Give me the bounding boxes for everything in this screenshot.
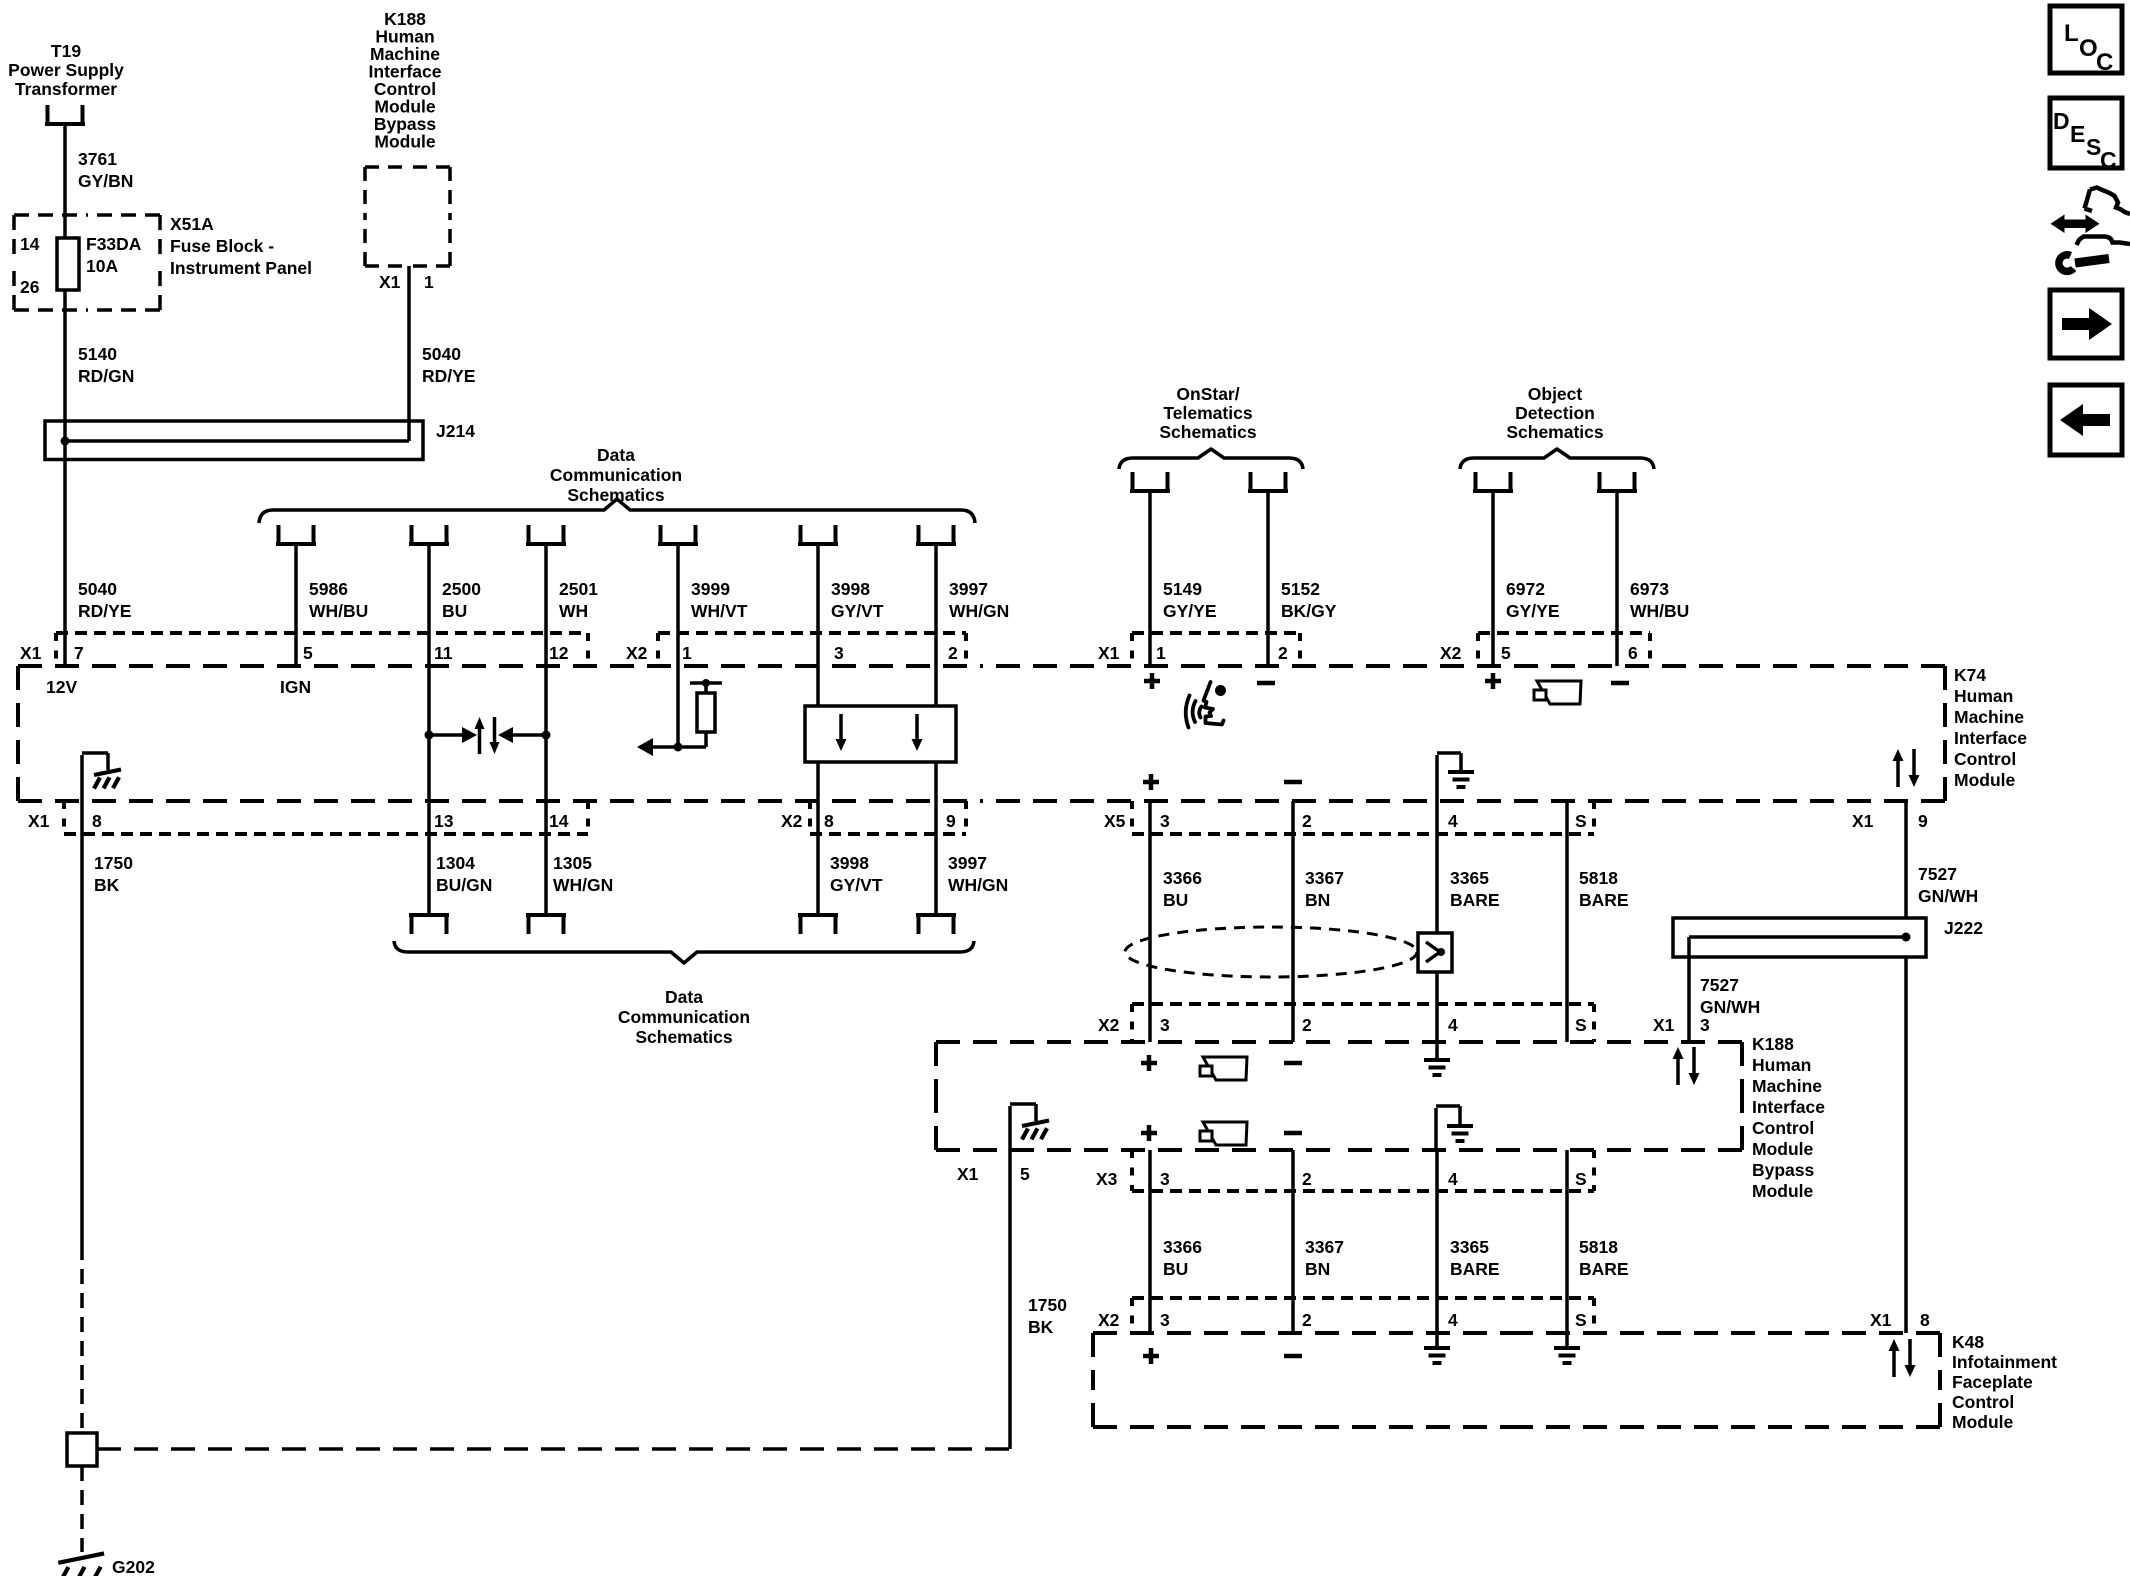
svg-text:WH: WH <box>559 601 588 621</box>
svg-text:X2: X2 <box>1098 1310 1120 1330</box>
svg-text:Schematics: Schematics <box>1159 422 1257 442</box>
svg-text:9: 9 <box>946 811 956 831</box>
car diagnostic icon <box>2085 188 2130 215</box>
svg-text:5: 5 <box>1501 643 1511 663</box>
svg-text:Detection: Detection <box>1515 403 1595 423</box>
svg-text:E: E <box>2070 121 2085 147</box>
svg-text:L: L <box>2064 20 2079 47</box>
wire 3761 GY/BN <box>63 124 67 238</box>
svg-text:G202: G202 <box>112 1557 155 1576</box>
connector row line (dotted) K74 bottom <box>64 832 588 836</box>
fuse F33DA 10A <box>57 238 79 290</box>
svg-text:WH/GN: WH/GN <box>949 601 1009 621</box>
svg-text:BARE: BARE <box>1450 890 1500 910</box>
svg-text:X5: X5 <box>1104 811 1126 831</box>
svg-text:T19: T19 <box>51 41 81 61</box>
fuse block X51A dashed box <box>14 213 87 217</box>
wire 5140 RD/GN <box>63 290 67 421</box>
svg-text:4: 4 <box>1448 1169 1458 1189</box>
chassis ground inside K74 left <box>82 753 108 801</box>
down arrow 1 in gateway box <box>839 714 843 741</box>
svg-text:BN: BN <box>1305 890 1330 910</box>
svg-text:Bypass: Bypass <box>1752 1160 1815 1180</box>
svg-text:GN/WH: GN/WH <box>1700 997 1760 1017</box>
wire 3997 WH/GN <box>934 544 938 666</box>
svg-text:X2: X2 <box>1098 1015 1120 1035</box>
svg-text:K188: K188 <box>1752 1034 1794 1054</box>
svg-text:10A: 10A <box>86 256 118 276</box>
svg-text:3999: 3999 <box>691 579 730 599</box>
svg-text:1: 1 <box>424 272 434 292</box>
K48 + sign <box>1143 1348 1159 1364</box>
svg-text:3998: 3998 <box>830 853 869 873</box>
terminating resistor branch wire 3999 <box>676 666 680 747</box>
wire 7527 GN/WH to K188 <box>1687 937 1691 1042</box>
off-page connector for wire 5152 <box>1248 472 1288 491</box>
svg-text:3: 3 <box>834 643 844 663</box>
svg-text:2: 2 <box>1302 1015 1312 1035</box>
connector ticks X3 of K188 <box>1130 1150 1134 1191</box>
svg-text:8: 8 <box>824 811 834 831</box>
serial data gateway box wires 3998/3997 <box>816 666 820 706</box>
svg-text:Machine: Machine <box>1752 1076 1822 1096</box>
svg-text:WH/GN: WH/GN <box>948 875 1008 895</box>
svg-text:6972: 6972 <box>1506 579 1545 599</box>
K188 row1 camera icon <box>1203 1057 1247 1080</box>
svg-text:BU: BU <box>442 601 467 621</box>
svg-text:3997: 3997 <box>948 853 987 873</box>
svg-text:5040: 5040 <box>422 344 461 364</box>
wire 5152 BK/GY <box>1266 491 1270 666</box>
svg-text:Object: Object <box>1528 384 1583 404</box>
svg-text:BU/GN: BU/GN <box>436 875 492 895</box>
brace over OnStar wires <box>1119 449 1303 469</box>
off-page connector wire 3997 <box>916 915 956 934</box>
svg-text:K74: K74 <box>1954 665 1986 685</box>
svg-text:GY/YE: GY/YE <box>1506 601 1560 621</box>
svg-text:J214: J214 <box>436 421 475 441</box>
svg-text:8: 8 <box>92 811 102 831</box>
svg-text:X3: X3 <box>1096 1169 1118 1189</box>
wire 1304 BU/GN <box>427 801 431 915</box>
svg-text:WH/BU: WH/BU <box>1630 601 1689 621</box>
svg-text:3366: 3366 <box>1163 1237 1202 1257</box>
svg-text:2: 2 <box>1302 1169 1312 1189</box>
wire 5818 BARE lower <box>1565 1150 1569 1333</box>
svg-text:4: 4 <box>1448 1310 1458 1330</box>
svg-text:RD/YE: RD/YE <box>422 366 475 386</box>
ground G202 <box>58 1553 104 1562</box>
svg-text:Infotainment: Infotainment <box>1952 1352 2057 1372</box>
off-page connector for wire 3997 <box>916 525 956 544</box>
off-page connector wire 1305 <box>526 915 566 934</box>
connector ticks K74 top <box>54 633 58 666</box>
svg-text:3: 3 <box>1160 1310 1170 1330</box>
splice pack J214 <box>45 421 423 460</box>
svg-text:5140: 5140 <box>78 344 117 364</box>
svg-text:C: C <box>2100 147 2117 173</box>
connector ticks X2 of K48 <box>1130 1298 1134 1333</box>
svg-text:BU: BU <box>1163 1259 1188 1279</box>
svg-text:BK: BK <box>1028 1317 1054 1337</box>
svg-text:Module: Module <box>374 132 436 152</box>
svg-text:BARE: BARE <box>1579 1259 1629 1279</box>
svg-text:5149: 5149 <box>1163 579 1202 599</box>
svg-text:IGN: IGN <box>280 677 311 697</box>
connector row line (dotted) K74 top <box>56 631 588 635</box>
brace over data communication wires (top) <box>259 499 975 523</box>
svg-text:GN/WH: GN/WH <box>1918 886 1978 906</box>
svg-text:Module: Module <box>1752 1181 1814 1201</box>
svg-text:S: S <box>1575 1169 1587 1189</box>
svg-text:1: 1 <box>1156 643 1166 663</box>
splice pack J222 <box>1673 918 1926 957</box>
svg-text:1305: 1305 <box>553 853 592 873</box>
wire 3997 WH/GN lower <box>934 801 938 915</box>
svg-text:X1: X1 <box>1870 1310 1892 1330</box>
svg-text:12: 12 <box>549 643 569 663</box>
off-page connector for wire 2501 <box>526 525 566 544</box>
wire 3366 BU lower <box>1148 1150 1152 1333</box>
LOC button <box>2050 6 2122 73</box>
svg-text:BN: BN <box>1305 1259 1330 1279</box>
brace under data communication wires (bottom) <box>394 941 974 963</box>
svg-text:5818: 5818 <box>1579 1237 1618 1257</box>
svg-text:WH/BU: WH/BU <box>309 601 368 621</box>
wire 3365 BARE lower <box>1435 1150 1439 1333</box>
K188 row2 - sign <box>1284 1131 1302 1136</box>
Object detection + sign <box>1485 673 1501 689</box>
K188 row1 - sign <box>1284 1061 1302 1066</box>
wire 3367 BN upper <box>1291 801 1295 1004</box>
svg-text:1750: 1750 <box>94 853 133 873</box>
brace over object detection wires <box>1460 449 1654 469</box>
K48 - sign <box>1284 1354 1302 1359</box>
svg-text:11: 11 <box>434 643 453 663</box>
svg-text:X1: X1 <box>1653 1015 1675 1035</box>
svg-text:Data: Data <box>597 445 635 465</box>
wire 1750 BK from K74 <box>80 801 84 1245</box>
svg-text:Module: Module <box>1952 1412 2014 1432</box>
svg-text:12V: 12V <box>46 677 77 697</box>
svg-text:BK: BK <box>94 875 120 895</box>
connector row line (dotted) X2 of K188 <box>1132 1002 1594 1006</box>
connector row line (dotted) X2 of K48 <box>1132 1296 1594 1300</box>
DESC button <box>2050 98 2122 168</box>
svg-text:Module: Module <box>1954 770 2016 790</box>
shield termination box on wire 3365 <box>1418 933 1452 972</box>
wire 5040 RD/YE from K188 <box>407 266 411 441</box>
junction dot J222 <box>1902 933 1911 942</box>
svg-text:Interface: Interface <box>1954 728 2027 748</box>
svg-text:14: 14 <box>549 811 569 831</box>
svg-text:S: S <box>1575 811 1587 831</box>
K188 row1 + sign <box>1141 1055 1157 1071</box>
wire 2501 WH <box>544 544 548 666</box>
wire 3365 BARE upper <box>1435 801 1439 933</box>
svg-text:26: 26 <box>20 277 40 297</box>
svg-text:Schematics: Schematics <box>635 1027 733 1047</box>
X5 - sign <box>1284 780 1302 785</box>
data arrows X1-8 inside K48 <box>1892 1349 1896 1377</box>
wire 1750 BK from K188 <box>1008 1150 1012 1449</box>
wire 5986 WH/BU <box>294 544 298 666</box>
svg-text:BARE: BARE <box>1450 1259 1500 1279</box>
svg-text:3998: 3998 <box>831 579 870 599</box>
wire 1305 WH/GN <box>544 801 548 915</box>
object detection camera icon <box>1537 681 1581 704</box>
svg-text:14: 14 <box>20 234 40 254</box>
K188 row2 camera icon <box>1203 1122 1247 1145</box>
svg-text:X2: X2 <box>1440 643 1462 663</box>
off-page connector for wire 6973 <box>1597 472 1637 491</box>
connector ticks K74 bottom <box>62 801 66 834</box>
svg-text:3: 3 <box>1160 1169 1170 1189</box>
off-page connector for wire 2500 <box>409 525 449 544</box>
svg-text:3: 3 <box>1160 811 1170 831</box>
svg-text:GY/YE: GY/YE <box>1163 601 1217 621</box>
Object detection - sign <box>1611 681 1629 686</box>
svg-text:RD/YE: RD/YE <box>78 601 131 621</box>
svg-text:X1: X1 <box>20 643 42 663</box>
svg-text:Interface: Interface <box>1752 1097 1825 1117</box>
wire to G202 dashed <box>80 1466 84 1552</box>
svg-text:O: O <box>2079 35 2098 62</box>
splice S-box on ground wire <box>67 1433 97 1466</box>
svg-text:Faceplate: Faceplate <box>1952 1372 2033 1392</box>
back arrow button <box>2050 385 2122 455</box>
svg-text:5152: 5152 <box>1281 579 1320 599</box>
svg-text:7: 7 <box>74 643 84 663</box>
OnStar polarity - sign <box>1257 681 1275 686</box>
X5 + sign <box>1143 774 1159 790</box>
wire 2500 BU <box>427 544 431 666</box>
svg-text:Communication: Communication <box>550 465 682 485</box>
svg-text:2501: 2501 <box>559 579 598 599</box>
connector ticks X2 of K188 <box>1130 1004 1134 1042</box>
wire 3998 GY/VT <box>816 544 820 666</box>
svg-text:Human: Human <box>1954 686 2013 706</box>
resistor R term <box>704 732 708 747</box>
svg-text:Module: Module <box>1752 1139 1814 1159</box>
svg-text:Control: Control <box>1752 1118 1814 1138</box>
svg-text:3761: 3761 <box>78 149 117 169</box>
svg-text:2500: 2500 <box>442 579 481 599</box>
dashed ground wire link 1750 <box>97 1447 1010 1451</box>
wires X2 pins into K188 row1 <box>1148 1004 1152 1042</box>
wire 1750 BK dashed segment <box>80 1245 84 1433</box>
svg-text:1304: 1304 <box>436 853 475 873</box>
svg-text:Schematics: Schematics <box>1506 422 1604 442</box>
svg-text:X1: X1 <box>1098 643 1120 663</box>
svg-text:4: 4 <box>1448 1015 1458 1035</box>
svg-text:8: 8 <box>1920 1310 1930 1330</box>
twisted pair ellipse <box>1125 927 1417 977</box>
svg-text:13: 13 <box>434 811 454 831</box>
earth ground inside K74 column 4 <box>1437 753 1461 801</box>
svg-text:9: 9 <box>1918 811 1928 831</box>
car icon double arrow <box>2063 220 2087 229</box>
svg-text:2: 2 <box>1278 643 1288 663</box>
svg-text:S: S <box>1575 1015 1587 1035</box>
wrench icon <box>2075 259 2109 264</box>
wire 3366 BU upper <box>1148 801 1152 1004</box>
wire 3998 GY/VT lower <box>816 801 820 915</box>
svg-text:GY/VT: GY/VT <box>830 875 883 895</box>
svg-text:BARE: BARE <box>1579 890 1629 910</box>
svg-text:3365: 3365 <box>1450 868 1489 888</box>
svg-text:2: 2 <box>948 643 958 663</box>
svg-text:Telematics: Telematics <box>1163 403 1252 423</box>
svg-text:X1: X1 <box>28 811 50 831</box>
svg-text:3: 3 <box>1160 1015 1170 1035</box>
svg-text:D: D <box>2053 108 2070 134</box>
module K74 dashed outline <box>18 664 982 668</box>
down arrow 2 in gateway box <box>915 714 919 741</box>
svg-text:1750: 1750 <box>1028 1295 1067 1315</box>
K48 earth ground pin 4 <box>1435 1333 1439 1347</box>
module K188 bypass (top) dashed box <box>365 165 408 169</box>
connector bracket under T19 <box>45 105 85 124</box>
svg-text:5: 5 <box>303 643 313 663</box>
off-page connector for wire 6972 <box>1473 472 1513 491</box>
svg-text:5: 5 <box>1020 1164 1030 1184</box>
svg-text:Control: Control <box>1952 1392 2014 1412</box>
svg-text:RD/GN: RD/GN <box>78 366 134 386</box>
svg-text:Control: Control <box>1954 749 2016 769</box>
chassis ground inside K188 left <box>1010 1104 1036 1150</box>
wire 7527 to K48 <box>1904 957 1908 1333</box>
svg-text:X2: X2 <box>626 643 648 663</box>
svg-text:J222: J222 <box>1944 918 1983 938</box>
svg-text:5986: 5986 <box>309 579 348 599</box>
svg-text:X2: X2 <box>781 811 803 831</box>
svg-text:2: 2 <box>1302 811 1312 831</box>
svg-text:Power Supply: Power Supply <box>8 60 124 80</box>
module K188 bypass dashed outline <box>936 1040 1339 1044</box>
svg-text:3367: 3367 <box>1305 868 1344 888</box>
svg-text:WH/GN: WH/GN <box>553 875 613 895</box>
svg-text:5818: 5818 <box>1579 868 1618 888</box>
K188 row2 + sign <box>1141 1125 1157 1141</box>
wire 5149 GY/YE <box>1148 491 1152 666</box>
svg-text:X1: X1 <box>379 272 401 292</box>
svg-text:3366: 3366 <box>1163 868 1202 888</box>
svg-text:X51A: X51A <box>170 214 214 234</box>
CAN bus symbol wires 2500/2501 <box>427 666 431 801</box>
off-page connector wire 3998 <box>798 915 838 934</box>
svg-text:7527: 7527 <box>1918 864 1957 884</box>
off-page connector for wire 3998 <box>798 525 838 544</box>
data arrows X1-3 inside K188 <box>1676 1057 1680 1085</box>
OnStar speaker icon <box>1215 685 1226 696</box>
svg-text:Human: Human <box>1752 1055 1811 1075</box>
svg-text:1: 1 <box>682 643 692 663</box>
svg-text:Fuse Block -: Fuse Block - <box>170 236 274 256</box>
svg-text:BU: BU <box>1163 890 1188 910</box>
svg-text:S: S <box>1575 1310 1587 1330</box>
svg-text:X1: X1 <box>957 1164 979 1184</box>
svg-text:WH/VT: WH/VT <box>691 601 748 621</box>
svg-text:Instrument Panel: Instrument Panel <box>170 258 312 278</box>
svg-text:Data: Data <box>665 987 703 1007</box>
svg-text:C: C <box>2096 49 2113 76</box>
K188 row2 earth ground <box>1436 1106 1460 1150</box>
junction dot J214 <box>61 437 70 446</box>
svg-text:5040: 5040 <box>78 579 117 599</box>
module K48 dashed outline <box>1093 1331 1517 1335</box>
svg-text:GY/BN: GY/BN <box>78 171 133 191</box>
svg-text:6973: 6973 <box>1630 579 1669 599</box>
wire X1-9 7527 GN/WH <box>1904 801 1908 918</box>
svg-text:4: 4 <box>1448 811 1458 831</box>
svg-text:3: 3 <box>1700 1015 1710 1035</box>
svg-text:GY/VT: GY/VT <box>831 601 884 621</box>
off-page connector for wire 3999 <box>658 525 698 544</box>
svg-text:Communication: Communication <box>618 1007 750 1027</box>
svg-text:BK/GY: BK/GY <box>1281 601 1337 621</box>
K48 earth ground pin S <box>1565 1333 1569 1347</box>
off-page connector for wire 5149 <box>1130 472 1170 491</box>
wire 3999 WH/VT <box>676 544 680 666</box>
data arrows X1-9 inside K74 <box>1896 759 1900 787</box>
off-page connector for wire 5986 <box>276 525 316 544</box>
svg-text:3365: 3365 <box>1450 1237 1489 1257</box>
svg-text:X1: X1 <box>1852 811 1874 831</box>
connector row line (dotted) X3 of K188 <box>1132 1189 1594 1193</box>
svg-text:F33DA: F33DA <box>86 234 142 254</box>
off-page connector wire 1304 <box>409 915 449 934</box>
wire 5040 RD/YE to K74 <box>63 421 67 666</box>
OnStar polarity + sign <box>1144 673 1160 689</box>
svg-text:6: 6 <box>1628 643 1638 663</box>
wire 3367 BN lower <box>1291 1150 1295 1333</box>
svg-text:Machine: Machine <box>1954 707 2024 727</box>
svg-text:2: 2 <box>1302 1310 1312 1330</box>
wire 6973 WH/BU <box>1615 491 1619 666</box>
svg-text:3367: 3367 <box>1305 1237 1344 1257</box>
svg-text:7527: 7527 <box>1700 975 1739 995</box>
K188 row1 earth ground <box>1435 1042 1439 1059</box>
wire 5818 BARE upper <box>1565 801 1569 1004</box>
svg-text:OnStar/: OnStar/ <box>1176 384 1239 404</box>
svg-text:K48: K48 <box>1952 1332 1984 1352</box>
wire 6972 GY/YE <box>1491 491 1495 666</box>
forward arrow button <box>2050 290 2122 358</box>
svg-text:Transformer: Transformer <box>15 79 117 99</box>
svg-text:3997: 3997 <box>949 579 988 599</box>
